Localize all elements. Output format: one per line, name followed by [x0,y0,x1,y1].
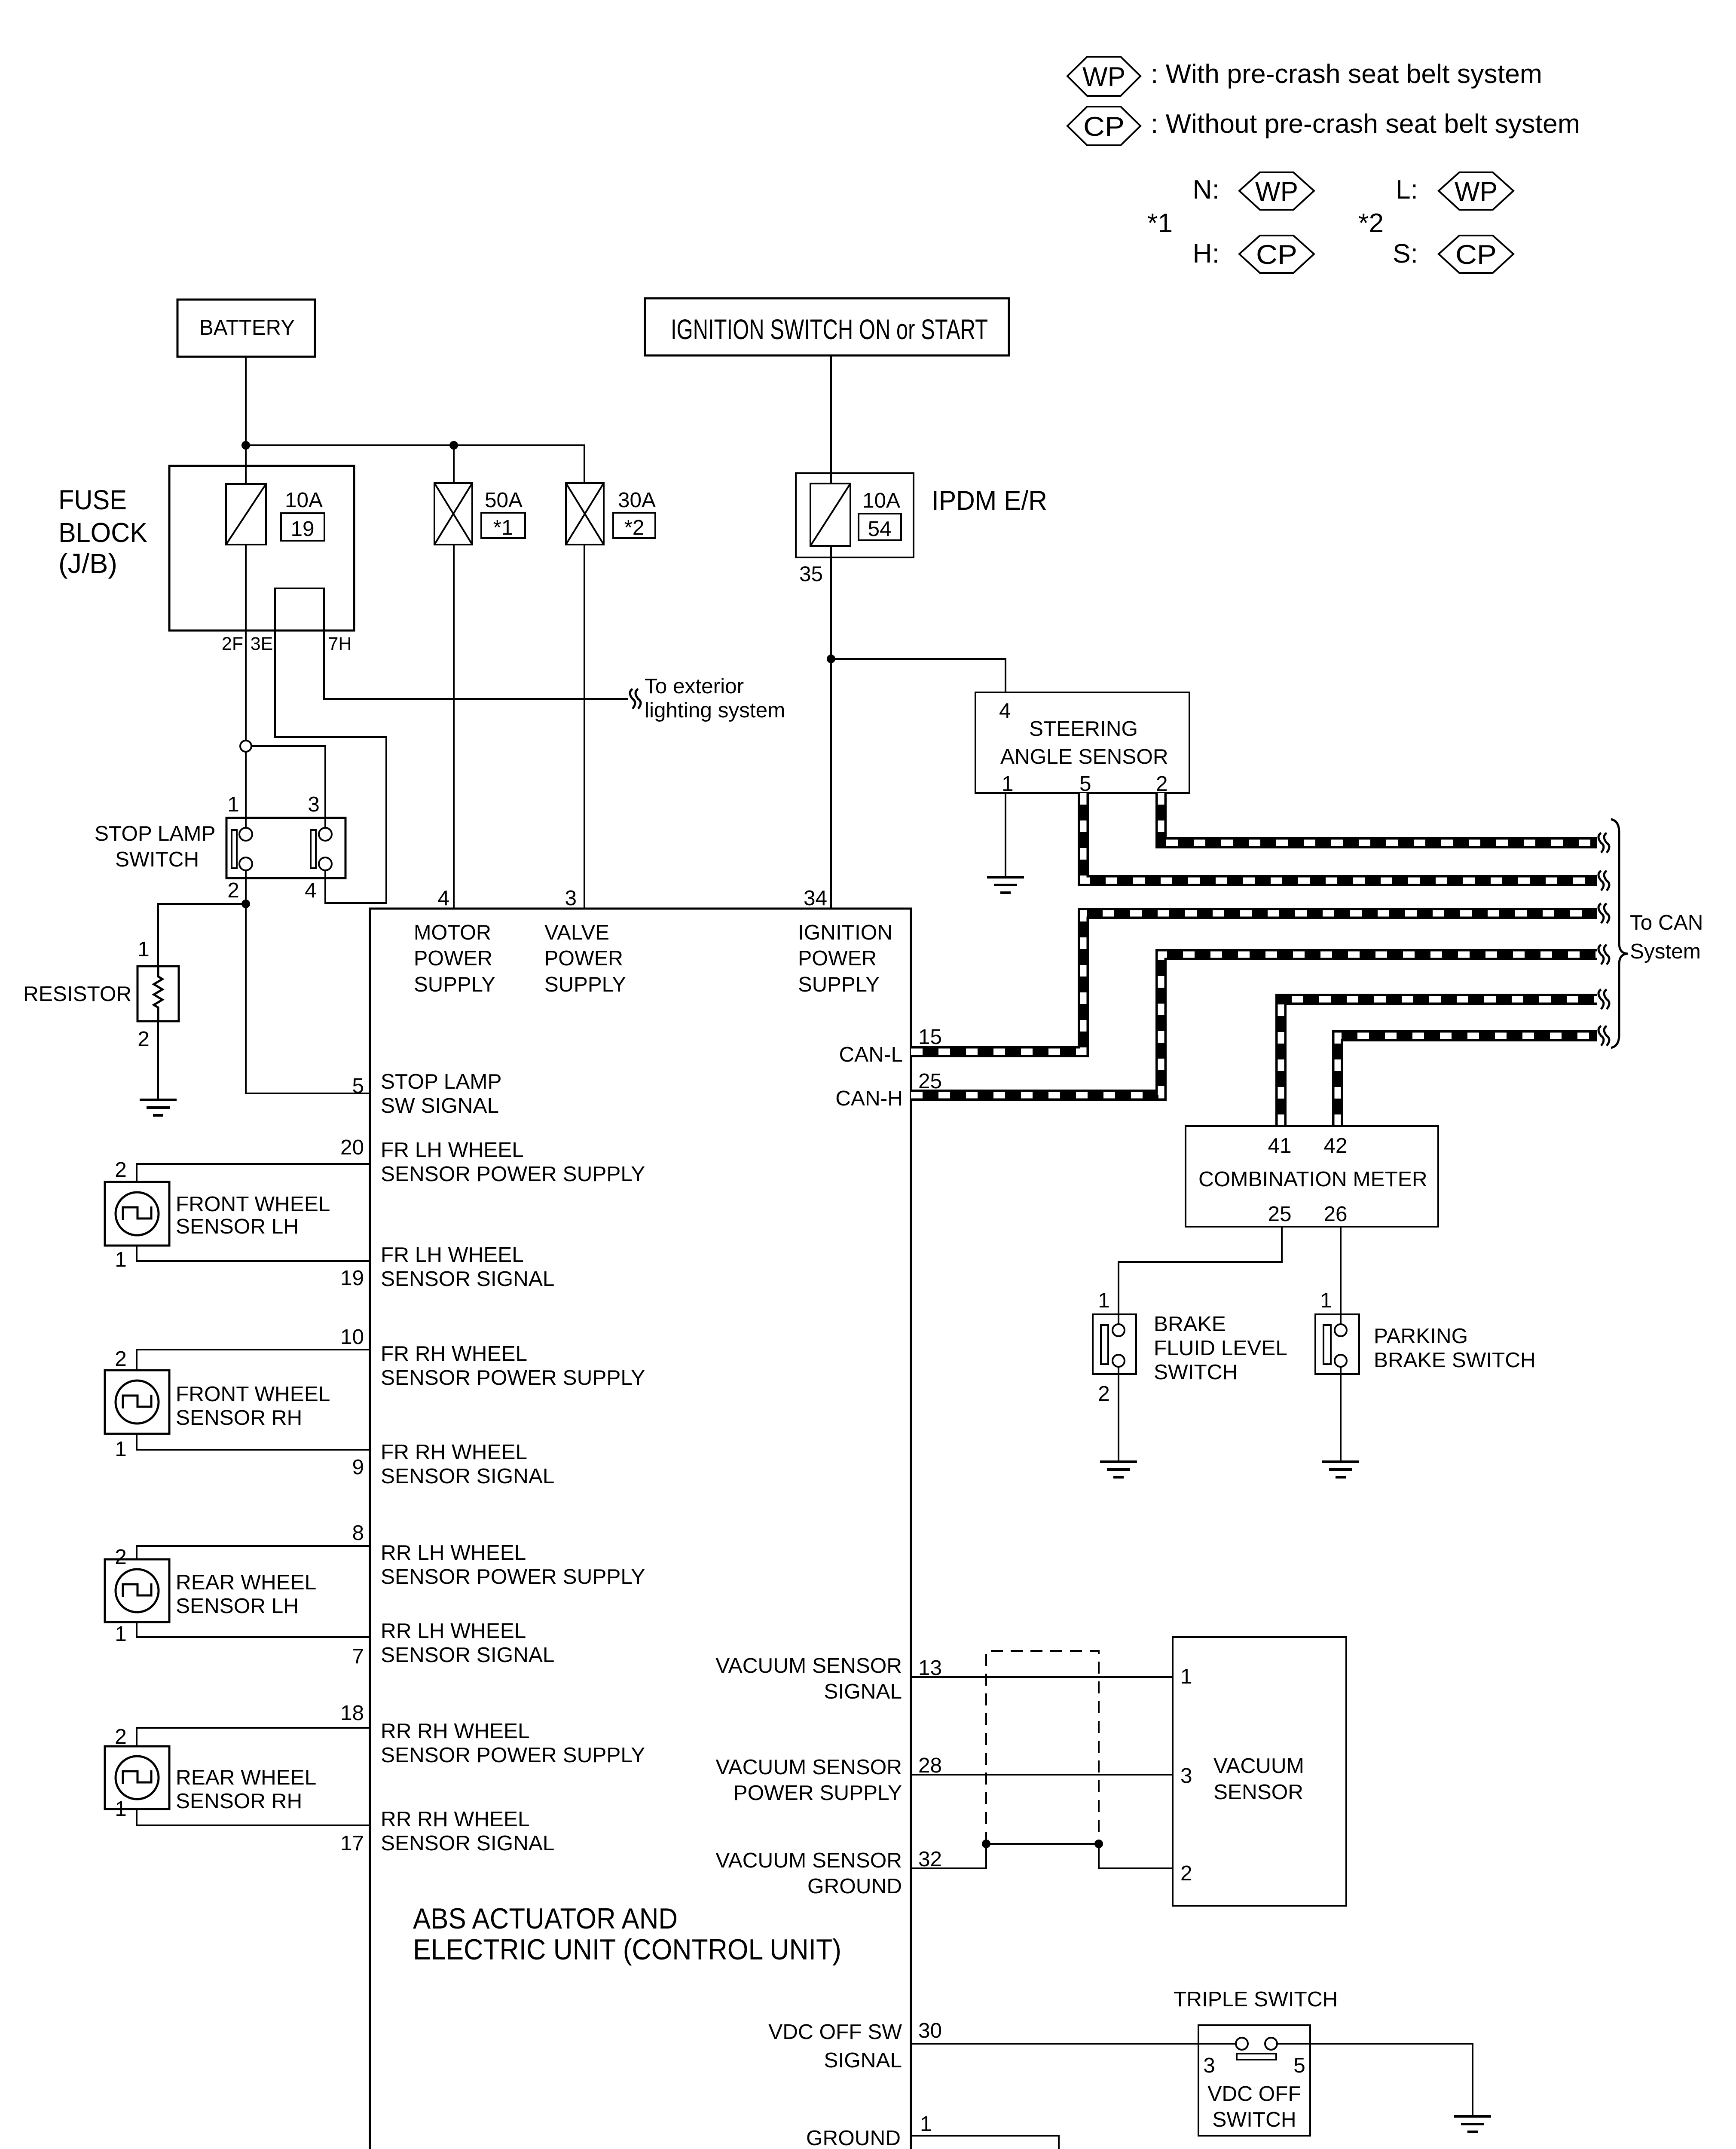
node bus 50A junction [449,441,458,450]
svg-text:SUPPLY: SUPPLY [414,973,495,996]
STOP LAMP SWITCH box [226,818,345,878]
legend hexagon L WP [1439,172,1513,210]
break mark exterior lighting [630,689,641,709]
wire battery down to fuse [245,357,247,484]
BRAKE FLUID LEVEL SWITCH box [1093,1314,1136,1374]
wire vdc switch to ground [1277,2044,1473,2116]
svg-text:9: 9 [352,1455,364,1479]
CAN line CAN-L [911,913,1597,1052]
IPDM E/R box [796,473,914,557]
CAN line meter 41 [1281,999,1597,1126]
svg-text:CP: CP [1083,112,1125,142]
svg-text:SW SIGNAL: SW SIGNAL [381,1094,499,1117]
CAN line meter 42 [1338,1036,1597,1126]
svg-text:IGNITION: IGNITION [798,921,892,944]
svg-text:SWITCH: SWITCH [1154,1360,1238,1384]
svg-text:FRONT WHEEL: FRONT WHEEL [176,1192,330,1216]
svg-text:1: 1 [138,937,150,961]
svg-text:35: 35 [799,562,823,586]
node shield left [982,1840,990,1848]
node battery bus junction [241,441,250,450]
svg-text:SUPPLY: SUPPLY [544,973,626,996]
svg-text:System: System [1630,940,1701,963]
svg-text:1: 1 [115,1248,127,1271]
svg-text:RESISTOR: RESISTOR [23,982,131,1006]
wire meter 26 to parking brake switch [1340,1227,1342,1324]
svg-text:STOP LAMP: STOP LAMP [95,822,216,845]
svg-text:5: 5 [1079,772,1091,796]
svg-text:*2: *2 [624,516,645,539]
node resistor junction [241,900,250,908]
node open junction [240,741,251,752]
stop lamp switch pin circles [239,828,252,841]
svg-text:FR LH WHEEL: FR LH WHEEL [381,1138,524,1162]
sensor RH symbol [116,1381,159,1423]
svg-text:5: 5 [352,1074,364,1098]
IGNITION SWITCH box [645,298,1009,355]
svg-text:3: 3 [1203,2054,1215,2077]
svg-text:3: 3 [308,793,320,816]
wire sensor LH pin1 to ABS 19 [137,1246,370,1261]
svg-text:FRONT WHEEL: FRONT WHEEL [176,1382,330,1406]
svg-text:19: 19 [340,1266,364,1290]
svg-text:GROUND: GROUND [807,1874,902,1898]
svg-text:1: 1 [1098,1289,1110,1312]
svg-text:GROUND: GROUND [806,2126,901,2149]
svg-text:1: 1 [1002,772,1014,796]
brake fluid pin circles [1113,1324,1125,1336]
stop lamp switch contact bar left [232,830,237,868]
svg-text:ELECTRIC UNIT (CONTROL UNIT): ELECTRIC UNIT (CONTROL UNIT) [413,1933,841,1966]
svg-text:SIGNAL: SIGNAL [824,2048,902,2072]
svg-text:SENSOR POWER SUPPLY: SENSOR POWER SUPPLY [381,1565,645,1589]
svg-text:2: 2 [115,1347,127,1371]
COMBINATION METER box [1186,1126,1438,1227]
svg-text:1: 1 [115,1797,127,1821]
BATTERY box [177,300,315,357]
svg-text:*2: *2 [1358,208,1384,238]
wire IPDM to ABS pin 34 [830,546,832,909]
wire rear RH pin2 to ABS 18 [137,1728,370,1746]
rear sensor LH symbol [116,1569,159,1612]
VDC OFF SWITCH box [1198,2025,1310,2136]
sensor LH symbol [116,1192,159,1235]
REAR WHEEL SENSOR RH box [105,1746,169,1809]
wire ABS 30 to VDC OFF switch [911,2043,1236,2045]
svg-text:15: 15 [918,1025,942,1049]
svg-text:RR RH WHEEL: RR RH WHEEL [381,1719,530,1743]
svg-text:SWITCH: SWITCH [115,848,199,871]
svg-text:SWITCH: SWITCH [1212,2108,1296,2131]
svg-text:(J/B): (J/B) [58,548,117,579]
node IPDM branch junction [827,655,835,663]
wire junction to pin 1 [245,752,247,828]
node shield right [1094,1840,1103,1848]
svg-text:1: 1 [115,1622,127,1646]
svg-text:IPDM E/R: IPDM E/R [932,486,1047,516]
svg-text:WP: WP [1255,177,1298,207]
wire ABS ground 1 [911,2136,1059,2149]
wire sensor LH pin2 to ABS 20 [137,1164,370,1182]
REAR WHEEL SENSOR LH box [105,1559,169,1622]
STEERING ANGLE SENSOR box [975,692,1189,793]
wire steering pin1 to ground [1005,793,1006,877]
fuse 10A (19) [226,484,266,545]
svg-text:1: 1 [1180,1665,1192,1688]
svg-text:32: 32 [918,1847,942,1871]
svg-text:POWER SUPPLY: POWER SUPPLY [734,1781,902,1805]
svg-text:L:: L: [1396,174,1418,205]
svg-text:WP: WP [1455,177,1498,207]
svg-text:H:: H: [1193,239,1220,269]
svg-text:CAN-L: CAN-L [839,1043,903,1066]
wire brake fluid to ground [1118,1367,1119,1462]
svg-text:FLUID LEVEL: FLUID LEVEL [1154,1336,1287,1360]
wire resistor to ground [157,1021,159,1100]
svg-text:3E: 3E [251,634,273,654]
wire ABS 13 to vacuum pin 1 [911,1676,1173,1678]
svg-text:To CAN: To CAN [1630,911,1703,934]
fuse 30A (*2) [566,483,604,545]
svg-text:34: 34 [804,886,827,910]
svg-text:VALVE: VALVE [544,921,609,944]
svg-text:FR RH WHEEL: FR RH WHEEL [381,1342,527,1365]
svg-text:RR LH WHEEL: RR LH WHEEL [381,1541,526,1564]
svg-text:SENSOR RH: SENSOR RH [176,1406,302,1430]
svg-text:17: 17 [340,1831,364,1855]
svg-text:POWER: POWER [544,946,623,970]
svg-text:2: 2 [1098,1382,1110,1405]
svg-text:WP: WP [1082,62,1125,92]
svg-text:4: 4 [999,699,1011,722]
ground brake fluid [1100,1462,1137,1477]
svg-text:POWER: POWER [798,946,877,970]
svg-text:13: 13 [918,1656,942,1680]
svg-text:RR LH WHEEL: RR LH WHEEL [381,1619,526,1643]
vdc switch circles [1236,2038,1248,2050]
wire 7H to exterior lighting [324,631,628,699]
svg-text:ABS ACTUATOR AND: ABS ACTUATOR AND [413,1902,678,1935]
svg-text:50A: 50A [485,488,523,512]
svg-text:REAR WHEEL: REAR WHEEL [176,1766,316,1789]
svg-text:2: 2 [227,879,239,902]
brake fluid contact bar [1101,1325,1108,1364]
svg-text:S:: S: [1393,239,1418,269]
svg-text:30: 30 [918,2019,942,2042]
svg-text:25: 25 [1268,1202,1291,1226]
svg-text:REAR WHEEL: REAR WHEEL [176,1570,316,1594]
svg-text:BATTERY: BATTERY [199,315,295,340]
svg-text:VDC OFF SW: VDC OFF SW [768,2020,902,2044]
stop lamp switch contact bar right [311,830,316,868]
svg-text:41: 41 [1268,1134,1291,1157]
wire rear LH pin2 to ABS 8 [137,1546,370,1559]
svg-text:STEERING: STEERING [1029,717,1138,741]
fuse block inner bus [275,588,324,631]
fuse *1 number box [481,513,525,538]
svg-text:VACUUM SENSOR: VACUUM SENSOR [715,1755,902,1779]
svg-text:26: 26 [1323,1202,1347,1226]
wire junction to pin 3 [251,746,325,828]
svg-text:SENSOR: SENSOR [1213,1780,1303,1804]
svg-text:*1: *1 [493,516,513,539]
svg-text:FR LH WHEEL: FR LH WHEEL [381,1243,524,1267]
PARKING BRAKE SWITCH box [1315,1314,1359,1374]
svg-text:To exterior: To exterior [645,674,744,698]
legend hexagon CP [1067,107,1140,145]
wire rear LH pin1 to ABS 7 [137,1622,370,1637]
svg-text:: Without pre-crash seat belt: : Without pre-crash seat belt system [1151,109,1580,139]
fuse 19 number box [281,513,324,541]
wire rear RH pin1 to ABS 17 [137,1809,370,1825]
svg-text:SENSOR POWER SUPPLY: SENSOR POWER SUPPLY [381,1743,645,1767]
svg-text:10A: 10A [285,488,323,512]
svg-text:FR RH WHEEL: FR RH WHEEL [381,1440,527,1464]
svg-text:POWER: POWER [414,946,492,970]
svg-text:COMBINATION METER: COMBINATION METER [1198,1167,1427,1191]
svg-text:2: 2 [115,1725,127,1748]
rear sensor RH symbol [116,1756,159,1799]
svg-text:BRAKE SWITCH: BRAKE SWITCH [1374,1348,1536,1372]
svg-text:5: 5 [1293,2054,1305,2077]
svg-text:25: 25 [918,1069,942,1093]
svg-text:2: 2 [115,1158,127,1182]
resistor zigzag [154,966,162,1021]
wire bus to fuses [246,445,584,483]
wire pin 4 loop back to 3E [275,631,386,903]
CAN line CAN-H [911,955,1597,1095]
svg-text:7: 7 [352,1644,364,1668]
parking contact bar [1323,1325,1331,1364]
svg-text:42: 42 [1323,1134,1347,1157]
svg-text:VDC OFF: VDC OFF [1207,2082,1301,2106]
wire ignition switch to IPDM fuse [830,355,832,484]
wire 30A fuse down to ABS pin 3 [584,545,585,909]
CAN line steering pin2 [1161,793,1597,843]
VACUUM SENSOR box [1173,1637,1346,1906]
svg-text:4: 4 [437,886,449,910]
svg-text:BLOCK: BLOCK [58,517,147,548]
wire bus tap to 50A fuse [453,445,455,483]
svg-text:SUPPLY: SUPPLY [798,973,880,996]
legend hexagon H CP [1239,236,1314,273]
svg-text:CP: CP [1455,240,1497,270]
wire parking to ground [1340,1367,1342,1462]
wire fuse 2F down to stop lamp switch [245,545,247,741]
fuse *2 number box [613,513,655,538]
svg-text:10: 10 [340,1325,364,1349]
svg-text:2: 2 [1156,772,1168,796]
svg-text:VACUUM: VACUUM [1213,1754,1304,1778]
svg-text:FUSE: FUSE [58,484,127,515]
svg-text:BRAKE: BRAKE [1154,1312,1226,1336]
svg-text:20: 20 [340,1136,364,1159]
svg-text:ANGLE SENSOR: ANGLE SENSOR [1000,745,1168,768]
svg-text:2: 2 [115,1545,127,1569]
svg-text:SENSOR SIGNAL: SENSOR SIGNAL [381,1831,554,1855]
svg-text:VACUUM SENSOR: VACUUM SENSOR [715,1654,902,1678]
svg-text:IGNITION SWITCH ON or START: IGNITION SWITCH ON or START [671,313,988,345]
svg-text:lighting system: lighting system [645,698,785,722]
svg-text:1: 1 [115,1437,127,1461]
svg-text:PARKING: PARKING [1374,1324,1468,1348]
svg-text:N:: N: [1193,174,1220,205]
fuse 10A (54) [810,484,850,546]
legend hexagon N WP [1239,172,1314,210]
svg-text:30A: 30A [618,488,656,512]
svg-text:1: 1 [227,793,239,816]
svg-text:SIGNAL: SIGNAL [824,1680,902,1703]
svg-text:VACUUM SENSOR: VACUUM SENSOR [715,1849,902,1872]
svg-text:8: 8 [352,1521,364,1545]
shield dashed box [986,1651,1099,1844]
ground steering [987,877,1024,893]
svg-text:18: 18 [340,1701,364,1725]
wire junction to resistor [158,904,246,966]
svg-text:SENSOR LH: SENSOR LH [176,1215,299,1238]
svg-text:SENSOR POWER SUPPLY: SENSOR POWER SUPPLY [381,1366,645,1390]
svg-text:2F: 2F [222,634,243,654]
wire ABS 28 to vacuum pin 3 [911,1774,1173,1776]
fuse 50A (*1) [434,483,472,545]
legend hexagon WP [1067,57,1140,96]
ground vdc [1454,2116,1491,2132]
vdc switch contact bar [1237,2054,1276,2060]
svg-text:54: 54 [868,517,891,541]
svg-text:7H: 7H [328,634,352,654]
svg-text:: With pre-crash seat belt sys: : With pre-crash seat belt system [1151,59,1542,89]
svg-text:1: 1 [920,2112,932,2136]
svg-text:SENSOR POWER SUPPLY: SENSOR POWER SUPPLY [381,1162,645,1186]
CAN line steering pin5 [1083,793,1597,881]
brace to CAN system [1611,819,1628,1048]
wire ABS 32 to vacuum pin 2 [911,1844,1173,1868]
svg-text:3: 3 [1180,1764,1192,1788]
RESISTOR box [138,966,179,1021]
svg-text:19: 19 [290,517,314,541]
svg-text:CAN-H: CAN-H [835,1087,903,1110]
FRONT WHEEL SENSOR RH box [105,1370,169,1434]
legend hexagon S CP [1439,236,1513,273]
svg-text:2: 2 [1180,1861,1192,1885]
svg-text:TRIPLE SWITCH: TRIPLE SWITCH [1174,1987,1338,2011]
wire branch to steering angle sensor [831,659,1006,692]
ground parking [1322,1462,1359,1477]
wire sensor RH pin1 to ABS 9 [137,1434,370,1450]
wire sensor RH pin2 to ABS 10 [137,1350,370,1370]
FRONT WHEEL SENSOR LH box [105,1182,169,1246]
ABS ACTUATOR box [370,909,911,2149]
svg-text:2: 2 [138,1027,150,1051]
svg-text:4: 4 [305,879,317,902]
svg-text:CP: CP [1256,240,1297,270]
svg-text:STOP LAMP: STOP LAMP [381,1070,502,1093]
svg-text:SENSOR SIGNAL: SENSOR SIGNAL [381,1464,554,1488]
svg-text:28: 28 [918,1754,942,1777]
svg-text:*1: *1 [1147,208,1173,238]
break marks CAN ends [1598,833,1609,853]
svg-text:3: 3 [565,886,577,910]
parking pin circles [1335,1324,1347,1336]
svg-text:MOTOR: MOTOR [414,921,491,944]
svg-text:SENSOR SIGNAL: SENSOR SIGNAL [381,1643,554,1667]
svg-text:SENSOR RH: SENSOR RH [176,1789,302,1813]
fuse 54 number box [859,514,901,540]
wire meter 25 to brake fluid switch [1119,1227,1282,1324]
svg-text:RR RH WHEEL: RR RH WHEEL [381,1807,530,1831]
wire 50A fuse down to ABS pin 4 [453,545,455,909]
svg-text:1: 1 [1320,1289,1332,1312]
svg-text:SENSOR LH: SENSOR LH [176,1594,299,1618]
svg-text:10A: 10A [862,489,900,512]
ground resistor [140,1100,177,1115]
FUSE BLOCK (J/B) box [169,466,354,631]
wire pin 2 to ABS pin 5 [246,870,370,1093]
svg-text:SENSOR SIGNAL: SENSOR SIGNAL [381,1267,554,1291]
